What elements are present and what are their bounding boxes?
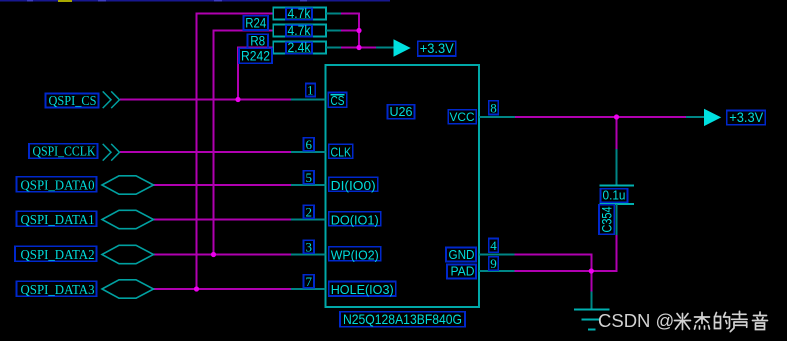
wire vertical resistor bus	[358, 13, 360, 49]
米	[675, 314, 691, 330]
part number N25Q128A13BF840G	[340, 311, 465, 327]
pin 1 CS	[291, 83, 347, 108]
svg-text:PAD: PAD	[451, 265, 475, 279]
pin 8 VCC	[448, 100, 515, 124]
wire QSPI_DATA3 net	[154, 288, 292, 290]
pin 4 GND	[446, 238, 515, 262]
wire QSPI_DATA1 net	[154, 219, 292, 221]
junction PAD/ground	[589, 268, 594, 273]
svg-text:VCC: VCC	[450, 110, 475, 124]
svg-text:HOLE(IO3): HOLE(IO3)	[331, 282, 394, 297]
svg-text:R24: R24	[245, 16, 266, 31]
wire VCC net	[515, 116, 686, 118]
value 2.4k (R242)	[286, 40, 312, 55]
svg-text:5: 5	[306, 170, 313, 185]
的	[715, 313, 730, 329]
power +3.3V right	[686, 109, 765, 126]
resistor R242 body	[273, 42, 341, 54]
power +3.3V top	[376, 39, 456, 56]
wire R8 left	[214, 30, 275, 32]
svg-text:CLK: CLK	[331, 144, 352, 159]
port QSPI_DATA3	[17, 280, 154, 298]
svg-text:DO(IO1): DO(IO1)	[331, 212, 379, 227]
port QSPI_CS	[46, 91, 120, 109]
pin 9 PAD	[447, 256, 515, 279]
svg-text:QSPI_DATA1: QSPI_DATA1	[21, 213, 95, 228]
value 4.7k (R24)	[286, 6, 312, 21]
wire R8 right	[341, 30, 359, 32]
wire R24 left	[197, 13, 275, 15]
ground	[574, 292, 609, 330]
IC U26 body	[326, 65, 480, 307]
wire QSPI_CCLK net	[120, 151, 291, 153]
pin 7 HOLE(IO3)	[291, 274, 396, 297]
junction VCC/cap	[614, 114, 619, 119]
声	[730, 311, 747, 331]
junction R24/DATA3	[194, 286, 199, 291]
svg-text:1: 1	[307, 83, 314, 98]
svg-text:DI(IO0): DI(IO0)	[331, 178, 376, 193]
wire PAD net	[515, 270, 618, 272]
svg-text:7: 7	[306, 274, 313, 289]
junction R8/DATA2	[211, 252, 216, 257]
svg-text:R242: R242	[241, 49, 270, 64]
pin 2 DO(IO1)	[291, 204, 381, 227]
wire GND net	[515, 254, 593, 256]
pin 6 CLK	[291, 137, 353, 160]
designator C354	[599, 205, 615, 234]
port QSPI_CCLK	[29, 144, 120, 161]
value 4.7k (R8)	[286, 23, 312, 38]
svg-text:2: 2	[306, 204, 313, 219]
wire vertical R242 to CS	[237, 47, 239, 101]
junction resistor bus mid	[356, 28, 361, 33]
port QSPI_DATA0	[17, 176, 154, 194]
designator R24	[244, 16, 269, 31]
杰	[695, 313, 710, 330]
svg-text:+3.3V: +3.3V	[420, 41, 454, 56]
svg-text:4.7k: 4.7k	[288, 23, 311, 38]
svg-text:QSPI_DATA3: QSPI_DATA3	[21, 283, 95, 298]
wire R24 right	[341, 13, 360, 15]
svg-text:QSPI_DATA2: QSPI_DATA2	[21, 248, 95, 263]
svg-text:CSDN @: CSDN @	[598, 310, 674, 331]
wire vertical R8 to DATA2	[213, 30, 215, 256]
svg-text:4.7k: 4.7k	[288, 6, 311, 21]
wire cap bottom	[616, 235, 618, 271]
svg-text:9: 9	[490, 256, 497, 271]
port QSPI_DATA1	[17, 210, 154, 228]
svg-text:QSPI_CS: QSPI_CS	[49, 94, 97, 109]
svg-text:QSPI_CCLK: QSPI_CCLK	[33, 145, 96, 160]
pin 3 WP(IO2)	[291, 239, 381, 262]
port QSPI_DATA2	[15, 245, 154, 263]
svg-text:C354: C354	[600, 206, 615, 232]
wire cap top	[616, 117, 618, 149]
resistor R24 body	[273, 8, 341, 20]
svg-text:U26: U26	[390, 104, 413, 119]
wire GND down	[590, 255, 592, 273]
watermark CSDN @米杰的声音	[598, 310, 768, 332]
wire R242 right to +3.3V	[341, 47, 376, 49]
svg-text:8: 8	[490, 100, 497, 115]
svg-text:0.1u: 0.1u	[603, 188, 626, 203]
value 0.1u (C354)	[601, 188, 628, 203]
junction resistor bus bottom	[356, 45, 361, 50]
wire QSPI_CS net	[120, 99, 291, 101]
resistor R8 body	[273, 25, 341, 37]
svg-text:QSPI_DATA0: QSPI_DATA0	[21, 178, 95, 193]
wire ground lead	[590, 271, 592, 292]
svg-text:N25Q128A13BF840G: N25Q128A13BF840G	[343, 311, 462, 327]
capacitor C354	[600, 149, 635, 235]
wire QSPI_DATA2 net	[154, 254, 292, 256]
wire QSPI_DATA0 net	[154, 184, 292, 186]
svg-text:GND: GND	[449, 248, 475, 262]
svg-text:3: 3	[306, 239, 313, 254]
svg-text:CS: CS	[331, 93, 345, 108]
designator U26	[388, 104, 415, 119]
pin 5 DI(IO0)	[291, 170, 378, 193]
wire R242 left	[238, 47, 274, 49]
designator R8	[248, 34, 269, 49]
junction R242/CS	[235, 97, 240, 102]
svg-text:R8: R8	[250, 34, 265, 49]
svg-text:+3.3V: +3.3V	[729, 110, 763, 125]
cut-off text fragments top edge	[0, 0, 390, 2]
designator R242	[239, 48, 272, 63]
wire vertical R24 to DATA3	[196, 13, 198, 291]
svg-text:4: 4	[490, 238, 497, 253]
音	[753, 312, 768, 330]
svg-text:WP(IO2): WP(IO2)	[331, 247, 379, 262]
svg-text:6: 6	[306, 137, 313, 152]
svg-text:2.4k: 2.4k	[288, 40, 311, 55]
